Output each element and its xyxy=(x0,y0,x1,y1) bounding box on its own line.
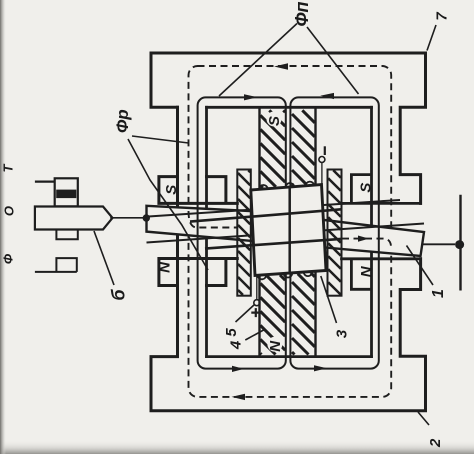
svg-text:б: б xyxy=(109,289,129,301)
terminal plus xyxy=(251,276,260,317)
svg-text:N: N xyxy=(358,265,375,277)
svg-text:Фр: Фр xyxy=(113,109,132,133)
coil center vertical xyxy=(288,187,291,273)
texts xyxy=(113,1,312,133)
inner core bottom bar xyxy=(207,355,372,358)
terminal minus xyxy=(319,146,325,185)
svg-text:7: 7 xyxy=(434,12,451,21)
dashed branch left xyxy=(189,211,238,228)
arrows xyxy=(232,63,370,400)
outer magnetic shell (labels 7 top, 2 bottom) xyxy=(151,53,426,203)
shaft + fork left xyxy=(35,178,113,272)
pole tab right-bottom N xyxy=(342,259,421,290)
dashed flux loop outer (Fp) xyxy=(189,66,392,397)
svg-text:S: S xyxy=(163,185,180,195)
hatched pole strip left xyxy=(237,170,251,296)
winding flux loop left xyxy=(198,97,286,368)
outer shell lower part xyxy=(151,107,426,411)
svg-text:4: 4 xyxy=(228,340,245,350)
pole tab right-top S xyxy=(342,175,421,204)
hatching: center magnet columns S/N xyxy=(260,110,315,354)
svg-text:N: N xyxy=(157,261,174,273)
winding flux loop right xyxy=(290,97,378,368)
svg-text:2: 2 xyxy=(427,438,444,448)
svg-text:Т: Т xyxy=(1,163,16,172)
svg-text:Фп: Фп xyxy=(292,1,312,26)
pole tab left-top S xyxy=(159,177,237,204)
inner core left column inner edge xyxy=(205,107,208,356)
inner core top bar xyxy=(207,106,372,109)
svg-text:О: О xyxy=(2,206,17,216)
svg-text:S: S xyxy=(266,116,283,126)
svg-text:3: 3 xyxy=(334,329,351,338)
hatched pole strip right xyxy=(328,170,342,296)
inner core right bar-end vertical xyxy=(370,107,373,356)
svg-text:S: S xyxy=(357,183,374,193)
coil turn bumps top xyxy=(258,182,315,280)
svg-text:5: 5 xyxy=(223,328,240,337)
leaders xyxy=(94,24,436,426)
dashed branch right xyxy=(342,239,391,247)
pole tab left-bottom N xyxy=(159,259,237,286)
hatching: pole strips xyxy=(238,170,341,295)
pivot axis right xyxy=(459,195,461,291)
center magnet column bottom N edges xyxy=(260,274,316,356)
moving coil square (white filled) xyxy=(251,185,326,276)
pointer bar (white filled) xyxy=(147,206,425,256)
wire U1 xyxy=(147,200,401,217)
letter halos xyxy=(267,112,283,352)
svg-text:Ф: Ф xyxy=(0,253,15,264)
wire U2 over square xyxy=(190,209,341,221)
svg-text:1: 1 xyxy=(430,289,447,298)
wire D2 over square xyxy=(205,239,341,249)
wire D1 xyxy=(147,224,425,243)
svg-text:N: N xyxy=(267,340,284,352)
center magnet column top S edges xyxy=(260,110,316,189)
